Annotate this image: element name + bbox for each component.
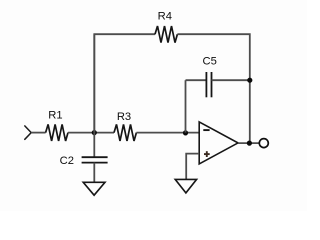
wire op-amp non-inverting input to ground	[186, 154, 199, 180]
ground below C2	[83, 182, 105, 195]
op-amp plus sign	[204, 151, 210, 157]
wire input to R1	[31, 132, 45, 134]
svg-text:R4: R4	[158, 10, 172, 22]
wire R3 to op-amp inverting input	[136, 132, 199, 134]
node D junction dot at output	[247, 141, 252, 146]
wire node A up to feedback loop	[93, 34, 95, 132]
svg-text:C2: C2	[60, 155, 74, 167]
resistor R1	[46, 124, 68, 141]
capacitor C5	[206, 72, 211, 97]
node C junction dot at C5/rail	[247, 78, 252, 83]
wire node A down to C2	[93, 133, 95, 157]
wire top left to R4	[94, 34, 155, 132]
resistor R3	[114, 124, 136, 141]
svg-text:R3: R3	[117, 111, 131, 123]
resistor R4	[155, 26, 177, 43]
wire op-amp output	[238, 142, 259, 144]
wire node B up to C5	[185, 80, 187, 132]
node B junction dot at inverting input	[183, 130, 188, 135]
output terminal circle	[259, 139, 268, 148]
op-amp U1 triangle	[199, 122, 238, 164]
wire C2 to ground	[93, 163, 95, 183]
wire C5 right plate to right rail	[212, 79, 250, 81]
ground below op-amp plus input	[175, 179, 196, 193]
svg-text:R1: R1	[48, 109, 62, 121]
input terminal chevron	[25, 126, 31, 139]
node A junction dot	[92, 130, 97, 135]
wire R1 to R3 through node	[68, 132, 114, 134]
wire to C5 left plate	[186, 79, 207, 81]
svg-text:C5: C5	[203, 56, 217, 68]
capacitor C2	[82, 157, 108, 162]
op-amp minus sign	[203, 129, 209, 131]
wire R4 to right rail	[177, 34, 249, 143]
